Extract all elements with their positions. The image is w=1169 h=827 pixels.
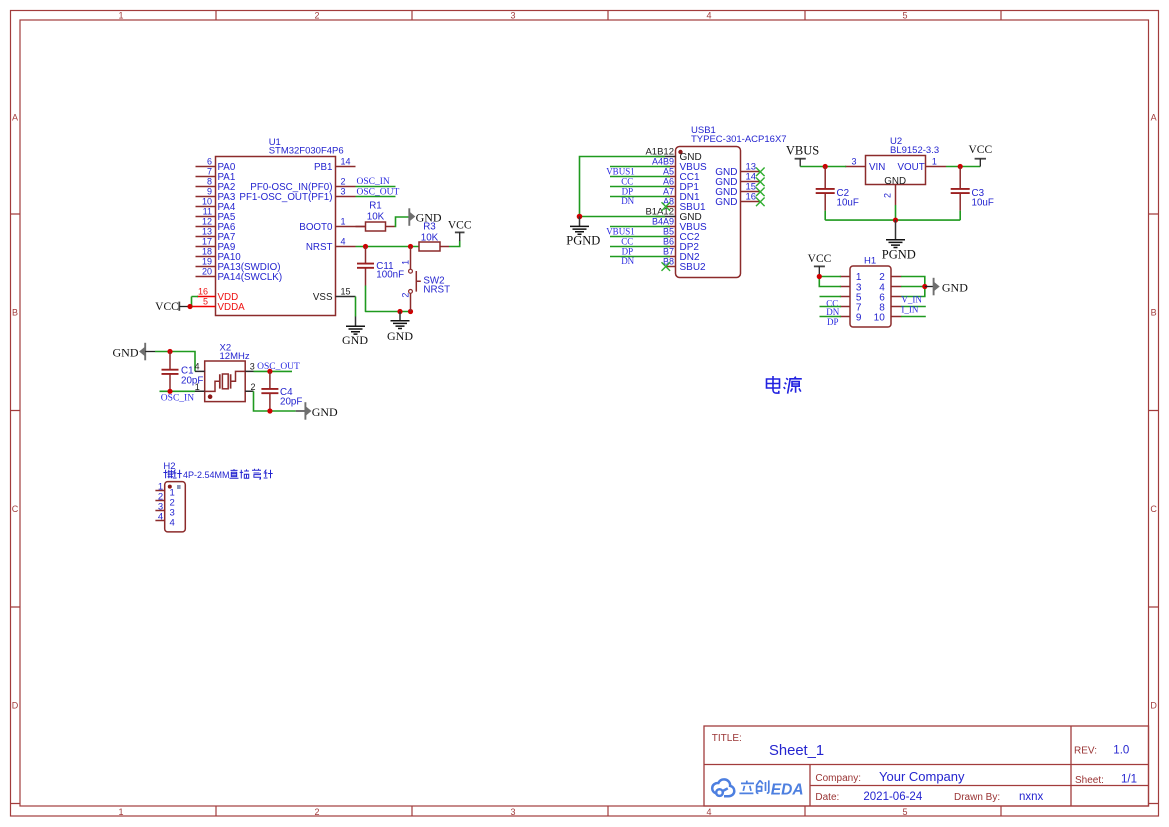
connector USB1 <box>676 125 787 277</box>
wire CC (H1 pin5) <box>820 297 842 309</box>
svg-text:GND: GND <box>942 280 968 294</box>
wire V_IN (H1 pin6) <box>901 295 926 307</box>
junction C1 bottom <box>167 389 172 394</box>
H2 value label 排针4P-2.54MM直插 弯针 <box>163 469 272 480</box>
svg-text:TYPEC-301-ACP16X7: TYPEC-301-ACP16X7 <box>691 134 787 145</box>
USB1 right pins 13-16 GND <box>715 162 759 209</box>
svg-text:BOOT0: BOOT0 <box>299 222 333 233</box>
svg-text:5: 5 <box>902 807 907 817</box>
svg-text:Date:: Date: <box>815 792 839 803</box>
svg-text:11: 11 <box>203 207 212 217</box>
svg-text:1: 1 <box>118 807 123 817</box>
svg-text:1: 1 <box>118 10 123 20</box>
svg-text:3: 3 <box>510 807 515 817</box>
svg-text:13: 13 <box>202 227 212 237</box>
svg-text:DP: DP <box>622 186 634 196</box>
wire R1 to GND flag <box>395 217 409 227</box>
regulator U2 <box>845 136 946 205</box>
junction PGND <box>577 214 583 220</box>
svg-text:DN: DN <box>621 256 634 266</box>
GND flag right of C4 <box>296 402 338 420</box>
svg-text:A6: A6 <box>663 177 674 187</box>
wire OSC_OUT (U1 pin3) <box>356 187 400 197</box>
junction C1 top <box>167 349 172 354</box>
svg-text:7: 7 <box>207 167 212 177</box>
svg-text:16: 16 <box>198 287 208 297</box>
junction C4 top <box>267 369 272 374</box>
crystal X2 <box>194 343 255 402</box>
svg-text:20pF: 20pF <box>181 375 203 386</box>
svg-text:20pF: 20pF <box>280 397 302 408</box>
svg-text:B6: B6 <box>663 237 674 247</box>
ground PGND (U2) <box>882 220 916 261</box>
svg-text:5: 5 <box>902 10 907 20</box>
svg-text:12MHz: 12MHz <box>220 351 250 362</box>
ground GND under SW2 <box>387 312 413 343</box>
svg-text:DP: DP <box>827 317 839 327</box>
ground GND under VSS <box>342 317 368 347</box>
svg-text:VBUS1: VBUS1 <box>606 167 635 177</box>
no-connect X marks <box>662 168 765 271</box>
VCC flag at U2 <box>968 144 992 167</box>
svg-text:NRST: NRST <box>423 284 450 295</box>
svg-text:B4A9: B4A9 <box>652 217 674 227</box>
svg-text:CC: CC <box>621 176 633 186</box>
svg-text:4: 4 <box>706 10 711 20</box>
svg-text:REV:: REV: <box>1074 745 1097 756</box>
svg-text:1: 1 <box>195 382 200 392</box>
svg-text:Sheet_1: Sheet_1 <box>769 743 824 759</box>
svg-text:9: 9 <box>207 187 212 197</box>
wire NRST net <box>356 246 420 248</box>
svg-text:1.0: 1.0 <box>1113 744 1129 756</box>
svg-text:D: D <box>12 701 19 711</box>
svg-text:PGND: PGND <box>882 247 916 261</box>
svg-text:PB1: PB1 <box>314 162 333 173</box>
svg-text:DP: DP <box>622 246 634 256</box>
svg-text:10uF: 10uF <box>837 197 859 208</box>
resistor R3 <box>419 222 449 252</box>
svg-text:A5: A5 <box>663 167 674 177</box>
junction NRST/C11 <box>363 244 368 249</box>
svg-text:BL9152-3.3: BL9152-3.3 <box>890 145 939 156</box>
text 电源 <box>767 376 802 394</box>
svg-text:5: 5 <box>203 297 208 307</box>
USB1 left pins <box>645 147 707 274</box>
svg-text:C: C <box>12 504 19 514</box>
svg-text:10uF: 10uF <box>972 197 994 208</box>
svg-text:GND: GND <box>312 405 338 419</box>
junction GND H1 <box>922 284 927 289</box>
svg-text:VBUS: VBUS <box>786 143 819 157</box>
svg-text:15: 15 <box>341 287 351 297</box>
svg-text:VOUT: VOUT <box>898 162 925 173</box>
svg-text:B: B <box>1151 308 1157 318</box>
svg-text:8: 8 <box>207 177 212 187</box>
svg-text:STM32F030F4P6: STM32F030F4P6 <box>269 146 344 157</box>
junction C4 bottom <box>267 408 272 413</box>
wire DN (B7) <box>610 256 670 266</box>
svg-text:VCC: VCC <box>808 253 832 265</box>
svg-text:12: 12 <box>202 217 212 227</box>
junction GND stem <box>397 309 402 314</box>
connector H2 <box>155 461 185 532</box>
svg-text:PGND: PGND <box>566 233 600 247</box>
svg-text:Sheet:: Sheet: <box>1075 775 1104 786</box>
svg-text:nxnx: nxnx <box>1019 791 1044 803</box>
junction SW2 pin2 <box>408 309 413 314</box>
capacitor C11 <box>357 247 404 286</box>
svg-text:2: 2 <box>251 382 256 392</box>
U1 right pins <box>239 157 365 253</box>
svg-text:1: 1 <box>932 157 937 167</box>
svg-text:3: 3 <box>851 157 856 167</box>
wire OSC_OUT at crystal <box>254 362 301 372</box>
svg-text:EDA: EDA <box>771 782 804 799</box>
wire GND to X2 pin4 <box>155 352 195 372</box>
svg-text:C: C <box>1150 504 1157 514</box>
svg-text:2: 2 <box>400 293 410 298</box>
svg-text:4: 4 <box>194 362 199 372</box>
VBUS flag <box>786 143 819 166</box>
wire R3 to VCC <box>449 241 460 247</box>
svg-text:GND: GND <box>113 346 139 360</box>
svg-text:VCC: VCC <box>968 144 992 156</box>
svg-text:OSC_IN: OSC_IN <box>357 177 390 187</box>
wire OSC_IN at crystal <box>160 391 196 403</box>
capacitor C4 <box>261 371 302 411</box>
svg-text:VCC: VCC <box>448 220 472 232</box>
svg-text:GND: GND <box>342 333 368 347</box>
wire VBUS to U2 VIN <box>800 166 846 168</box>
wire VBUS1 (A4B9) <box>606 167 670 177</box>
svg-text:4: 4 <box>170 518 175 529</box>
svg-text:VDDA: VDDA <box>218 302 246 313</box>
svg-text:OSC_IN: OSC_IN <box>161 394 194 404</box>
svg-text:Drawn By:: Drawn By: <box>954 792 1000 803</box>
svg-text:2: 2 <box>882 193 892 198</box>
svg-text:4: 4 <box>341 237 346 247</box>
LOGO <box>0 0 1 1</box>
svg-text:2: 2 <box>314 10 319 20</box>
svg-text:100nF: 100nF <box>376 270 404 281</box>
U1 power pins VDD 16 / VDDA 5 <box>190 287 245 313</box>
svg-text:10: 10 <box>202 197 212 207</box>
svg-text:4: 4 <box>158 512 163 523</box>
svg-text:PA14(SWCLK): PA14(SWCLK) <box>218 272 283 283</box>
capacitor C2 <box>816 167 859 211</box>
svg-text:I_IN: I_IN <box>901 305 918 315</box>
svg-text:Company:: Company: <box>815 773 861 784</box>
svg-text:20: 20 <box>202 267 212 277</box>
svg-text:VBUS1: VBUS1 <box>606 227 635 237</box>
svg-text:1: 1 <box>341 217 346 227</box>
resistor R1 <box>356 201 395 231</box>
svg-text:9: 9 <box>856 312 862 323</box>
svg-text:6: 6 <box>207 157 212 167</box>
svg-text:A: A <box>1151 112 1157 122</box>
VCC flag at R3 <box>448 220 472 241</box>
junction VCC/VDDA <box>187 304 192 309</box>
svg-text:R3: R3 <box>423 222 436 233</box>
junction VCC H1 <box>817 274 822 279</box>
svg-text:10: 10 <box>874 312 886 323</box>
wire CC (B5) <box>610 236 670 246</box>
svg-text:OSC_OUT: OSC_OUT <box>257 362 300 372</box>
svg-text:H1: H1 <box>864 255 876 266</box>
svg-text:17: 17 <box>202 237 212 247</box>
wire USB GND pins to PGND <box>580 157 666 217</box>
TITLEBLOCK <box>704 726 1149 806</box>
svg-text:DN: DN <box>826 307 839 317</box>
U1 VSS pin 15 <box>313 287 356 303</box>
svg-text:B7: B7 <box>663 247 674 257</box>
svg-text:OSC_OUT: OSC_OUT <box>357 187 400 197</box>
wire DP (B6) <box>610 246 670 256</box>
svg-text:4: 4 <box>706 807 711 817</box>
svg-text:DN: DN <box>621 196 634 206</box>
svg-text:R1: R1 <box>369 201 382 212</box>
svg-text:1/1: 1/1 <box>1121 773 1137 785</box>
svg-text:B5: B5 <box>663 227 674 237</box>
svg-text:Your Company: Your Company <box>879 769 965 784</box>
svg-text:A: A <box>12 112 18 122</box>
junction C2 top <box>823 164 828 169</box>
op-amp U1 <box>216 137 344 316</box>
wire DN (A7) <box>610 196 670 206</box>
svg-text:14: 14 <box>341 157 351 167</box>
wire VCC to H1 pins 1,3 <box>819 277 841 287</box>
svg-text:A7: A7 <box>663 187 674 197</box>
wire DN (H1 pin7) <box>820 307 842 317</box>
svg-text:B: B <box>12 308 18 318</box>
junction PGND U2 <box>893 218 898 223</box>
svg-text:VCC: VCC <box>155 301 179 313</box>
junction C3 top <box>958 164 963 169</box>
logo cloud 立创EDA <box>712 779 803 798</box>
wire VSS to GND <box>355 297 357 317</box>
wire U2 ground bus <box>825 205 960 220</box>
svg-text:GND: GND <box>715 197 737 208</box>
svg-text:18: 18 <box>202 247 212 257</box>
switch SW2 <box>400 247 450 312</box>
wire U2 VOUT to VCC <box>946 166 980 168</box>
svg-text:PF1-OSC_OUT(PF1): PF1-OSC_OUT(PF1) <box>239 192 332 203</box>
ground PGND (USB) <box>566 217 600 248</box>
svg-text:19: 19 <box>202 257 212 267</box>
svg-text:VSS: VSS <box>313 292 333 303</box>
svg-text:D: D <box>1150 701 1157 711</box>
svg-text:2: 2 <box>314 807 319 817</box>
wire I_IN (H1 pin8) <box>901 305 926 317</box>
VCC flag at H1 <box>808 253 832 276</box>
svg-text:A4B9: A4B9 <box>652 157 674 167</box>
connector H1 <box>840 255 902 327</box>
svg-text:TITLE:: TITLE: <box>712 733 742 744</box>
GND flag left of C1 <box>113 343 156 361</box>
wire VCC to VDD/VDDA <box>189 297 198 307</box>
GND flag at H1 <box>925 278 968 296</box>
svg-text:SBU1: SBU1 <box>680 202 707 213</box>
svg-text:10K: 10K <box>421 232 439 243</box>
svg-text:VIN: VIN <box>869 162 885 173</box>
svg-text:4P-2.54MM: 4P-2.54MM <box>183 470 230 480</box>
VCC flag left of U1 <box>155 301 189 313</box>
wire DP (H1 pin9) <box>820 317 842 328</box>
svg-text:NRST: NRST <box>306 242 333 253</box>
svg-text:1: 1 <box>400 260 410 265</box>
svg-text:10K: 10K <box>367 212 385 223</box>
U1 left pins 6-20 <box>196 157 283 283</box>
svg-text:3: 3 <box>250 362 255 372</box>
capacitor C3 <box>951 167 994 211</box>
wire H1 pins 2,4,6 to GND <box>901 277 925 297</box>
svg-text:GND: GND <box>387 329 413 343</box>
wire CC (A5) <box>610 176 670 186</box>
svg-text:V_IN: V_IN <box>901 295 922 305</box>
junction NRST/SW2 <box>408 244 413 249</box>
svg-text:SBU2: SBU2 <box>680 262 707 273</box>
svg-text:2: 2 <box>341 177 346 187</box>
wire DP (A6) <box>610 186 670 196</box>
svg-text:3: 3 <box>510 10 515 20</box>
wire X2 pin2 to GND <box>254 391 296 411</box>
capacitor C1 <box>162 352 204 392</box>
svg-text:CC: CC <box>621 236 633 246</box>
svg-text:2021-06-24: 2021-06-24 <box>863 791 922 803</box>
svg-text:3: 3 <box>341 187 346 197</box>
svg-text:16: 16 <box>746 192 757 203</box>
GND flag at R1 <box>409 208 442 226</box>
wire OSC_IN (U1 pin2) <box>356 177 396 187</box>
wire VBUS1 (B4A9) <box>606 227 670 237</box>
wire C11 to GND <box>366 286 411 312</box>
